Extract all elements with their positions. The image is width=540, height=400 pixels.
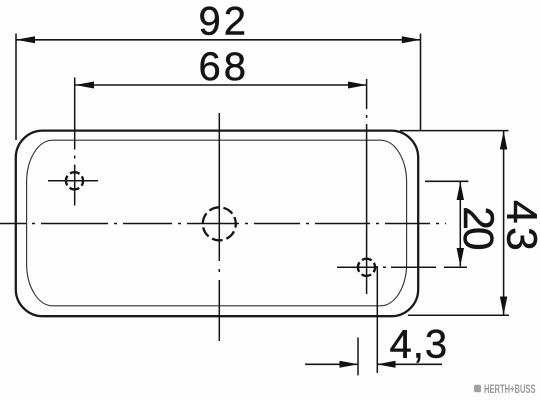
horizontal center line — [0, 223, 446, 225]
hole H2 circle — [358, 259, 375, 276]
dimension 4,3 right arrow — [377, 361, 396, 368]
lamp body outer outline — [16, 131, 418, 317]
hole H1 circle — [66, 172, 83, 189]
dimension 43 top arrow — [500, 131, 507, 150]
center circle — [203, 207, 236, 240]
dimension 20 top arrow — [457, 182, 464, 200]
watermark logo mark — [474, 385, 481, 392]
dimension 92 line — [16, 39, 421, 41]
dimension 4,3 right extension line — [376, 266, 378, 373]
svg-text:92: 92 — [199, 0, 250, 44]
dimension 20 line — [459, 181, 461, 266]
vertical center line — [218, 113, 220, 341]
dimension 92 right extension line — [420, 34, 422, 132]
dimension 43 line — [503, 131, 505, 315]
svg-text:HERTH+BUSS: HERTH+BUSS — [484, 384, 536, 396]
svg-text:20: 20 — [454, 206, 501, 249]
dimension 4,3 left arrow — [340, 361, 359, 368]
dimension 68 line — [75, 84, 367, 86]
hole H1 vertical center line — [74, 78, 76, 206]
svg-text:68: 68 — [199, 45, 250, 89]
svg-text:43: 43 — [497, 200, 540, 254]
dimension 68 right arrow — [348, 82, 367, 89]
dimension 68 left arrow — [75, 82, 94, 89]
dimension 92 left arrow — [16, 36, 35, 43]
dimension 20 top extension bar — [425, 180, 468, 182]
dimension 4,3 left extension line — [357, 337, 359, 375]
dimension 92 left extension line — [15, 34, 17, 141]
dimension 4,3 left line — [305, 363, 358, 365]
dimension 4,3 right line — [377, 363, 442, 365]
dimension 20 bottom arrow — [457, 248, 464, 266]
svg-text:4,3: 4,3 — [390, 323, 449, 367]
lamp lens inner outline — [27, 140, 407, 306]
dimension 92 right arrow — [402, 36, 421, 43]
dimension 43 top extension line — [400, 130, 509, 132]
dimension 43 bottom extension line — [408, 314, 509, 316]
hole H2 vertical center line — [366, 79, 368, 294]
hole H1 horizontal center line — [48, 180, 98, 182]
dimension 43 bottom arrow — [500, 297, 507, 316]
hole H2 horizontal center line — [337, 266, 467, 268]
